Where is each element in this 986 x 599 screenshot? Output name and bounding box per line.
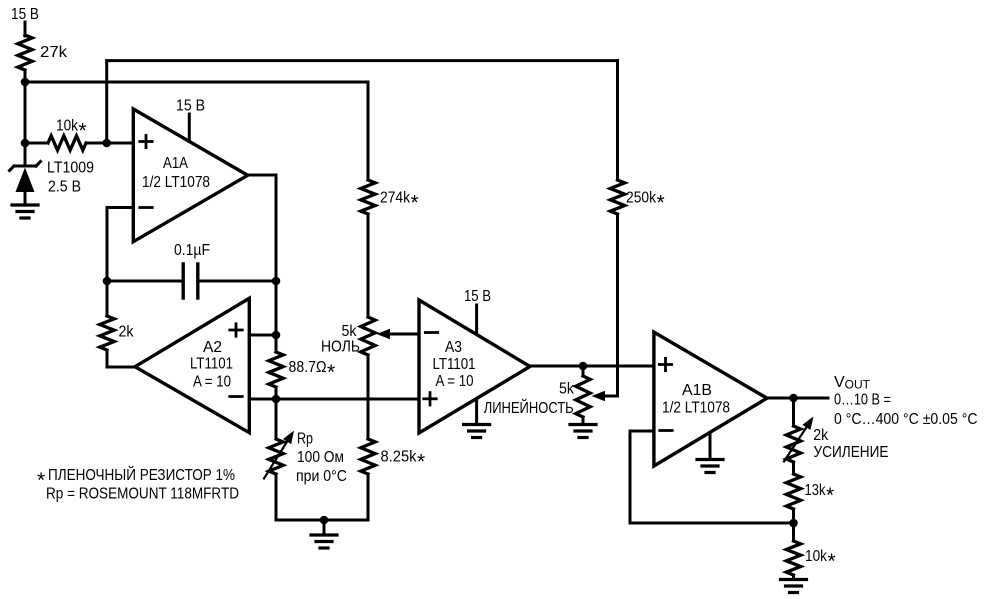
svg-text:LT1101: LT1101: [433, 356, 476, 373]
ground stub (5k lin pot): [582, 417, 585, 423]
svg-text:при 0°C: при 0°C: [296, 468, 347, 485]
svg-text:A2: A2: [203, 339, 222, 356]
node A2 + / A1A out junction: [272, 331, 281, 340]
node bottom ground junction: [320, 516, 329, 525]
wiper arrow 5k НОЛЬ: [377, 329, 391, 339]
A1A 15V power stub: [188, 114, 191, 142]
resistor 10k* horizontal: [25, 142, 48, 145]
svg-text:13k: 13k: [805, 482, 827, 499]
wire A1A output: [248, 174, 276, 177]
svg-text:*: *: [657, 191, 665, 214]
svg-text:*: *: [417, 450, 425, 473]
resistor 27k: [18, 35, 32, 70]
op-amp A3 LT1101: [419, 300, 530, 433]
node junction A1A + input / top rail drop: [102, 139, 111, 148]
svg-text:*: *: [828, 550, 836, 573]
svg-text:10k: 10k: [805, 548, 828, 565]
svg-text:0 °C…400 °C ±0.05 °C: 0 °C…400 °C ±0.05 °C: [834, 411, 978, 428]
svg-text:1/2 LT1078: 1/2 LT1078: [662, 400, 730, 417]
op-amp A1B 1/2 LT1078: [654, 332, 767, 466]
capacitor 0.1µF: [107, 280, 183, 283]
node cap right junction (A1A out): [272, 277, 281, 286]
wire A2 - input bus to A3 + input: [249, 398, 419, 401]
resistor 13k*: [786, 474, 800, 509]
wire A1A - input to cap node: [107, 206, 133, 209]
svg-text:ЛИНЕЙНОСТЬ: ЛИНЕЙНОСТЬ: [484, 398, 574, 417]
op-amp A1A 1/2 LT1078: [133, 109, 247, 242]
wire 27k to node: [24, 70, 27, 143]
op-amp A2 LT1101 (points left): [135, 298, 249, 432]
svg-text:Rp: Rp: [297, 431, 313, 448]
svg-text:A = 10: A = 10: [193, 374, 231, 391]
svg-text:88.7Ω: 88.7Ω: [289, 359, 327, 376]
node A1B output junction: [789, 394, 798, 403]
svg-text:VOUT: VOUT: [834, 374, 871, 392]
svg-text:УСИЛЕНИЕ: УСИЛЕНИЕ: [814, 444, 889, 461]
A3 ground stub: [475, 400, 478, 424]
potentiometer 5k НОЛЬ (zero trim): [361, 317, 375, 355]
svg-text:15 В: 15 В: [11, 6, 39, 23]
svg-text:15 В: 15 В: [176, 98, 205, 115]
svg-text:10k: 10k: [56, 118, 79, 135]
wire 15V to 27k: [24, 22, 27, 36]
svg-text:1/2 LT1078: 1/2 LT1078: [142, 174, 210, 191]
svg-text:5k: 5k: [559, 381, 575, 398]
wire vertical drop from top rail to A1A + node: [105, 61, 108, 143]
wire A3 output to A1B + input: [530, 365, 654, 368]
wire A1B - feedback: [630, 430, 654, 433]
svg-text:*: *: [327, 361, 335, 384]
node cap left junction: [103, 277, 112, 286]
wire 2k to A2 output apex: [107, 366, 136, 369]
resistor 10k*: [786, 541, 800, 575]
svg-text:НОЛЬ: НОЛЬ: [321, 339, 360, 356]
svg-text:ПЛЕНОЧНЫЙ РЕЗИСТОР 1%: ПЛЕНОЧНЫЙ РЕЗИСТОР 1%: [48, 465, 235, 484]
ground (A1B): [697, 460, 723, 473]
wire 274k branch drop: [367, 82, 370, 180]
svg-text:15 В: 15 В: [464, 288, 491, 305]
ground (5k lin pot): [570, 425, 596, 438]
node junction 27k / feedback rail y82: [21, 78, 30, 87]
resistor 8.25k*: [361, 439, 375, 474]
svg-text:A = 10: A = 10: [436, 373, 474, 390]
svg-text:5k: 5k: [342, 323, 358, 340]
svg-text:Rp = ROSEMOUNT 118MFRTD: Rp = ROSEMOUNT 118MFRTD: [46, 486, 239, 503]
resistor 274k*: [361, 180, 375, 214]
svg-text:274k: 274k: [380, 190, 411, 207]
resistor 88.7Ω*: [269, 352, 283, 387]
node junction 10k / LT1009: [21, 139, 30, 148]
svg-text:2k: 2k: [813, 427, 829, 444]
potentiometer 5k ЛИНЕЙНОСТЬ (linearity trim): [582, 366, 585, 376]
svg-text:*: *: [79, 119, 87, 142]
wire bottom ground rail: [276, 519, 368, 522]
svg-text:*: *: [826, 484, 834, 507]
svg-text:A1A: A1A: [163, 155, 188, 172]
wire top rail y=60.6 to 250k branch: [107, 59, 618, 62]
A3 15V power stub: [475, 305, 478, 332]
wire A2 + input: [249, 334, 276, 337]
wire rail y=82 to 274k branch: [25, 81, 368, 84]
svg-text:2.5 В: 2.5 В: [48, 179, 81, 196]
ground (10k): [781, 580, 807, 593]
node feedback junction 13k/10k: [789, 519, 798, 528]
wire A1B output: [767, 397, 828, 400]
svg-text:0…10 В =: 0…10 В =: [834, 392, 891, 409]
A1B ground stub: [709, 435, 712, 458]
ground (A3): [464, 425, 490, 438]
resistor 2k УСИЛЕНИЕ (gain trim, variable): [792, 398, 795, 426]
resistor Rp (RTD, variable): [275, 399, 278, 439]
wiper arrow 5k ЛИНЕЙНОСТЬ: [592, 391, 606, 401]
svg-text:*: *: [411, 191, 419, 214]
resistor 2k: [106, 281, 109, 316]
node A3 output junction: [579, 362, 588, 371]
svg-text:100 Ом: 100 Ом: [297, 449, 344, 466]
svg-text:27k: 27k: [40, 44, 68, 61]
svg-text:2k: 2k: [119, 323, 135, 340]
resistor 250k*: [610, 180, 624, 214]
zener diode LT1009 2.5V: [24, 143, 27, 166]
ground (LT1009): [12, 205, 38, 218]
svg-text:A3: A3: [445, 339, 462, 356]
wire 250k branch drop: [616, 61, 619, 180]
svg-text:8.25k: 8.25k: [381, 449, 418, 466]
node junction 88.7 / Rp / bus: [272, 395, 281, 404]
svg-text:250k: 250k: [626, 190, 657, 207]
svg-text:LT1101: LT1101: [190, 356, 233, 373]
svg-text:A1B: A1B: [682, 382, 712, 399]
svg-text:LT1009: LT1009: [47, 160, 94, 177]
svg-text:0.1µF: 0.1µF: [174, 242, 210, 259]
ground (bottom rail): [311, 535, 337, 548]
svg-text:*: *: [37, 469, 45, 492]
